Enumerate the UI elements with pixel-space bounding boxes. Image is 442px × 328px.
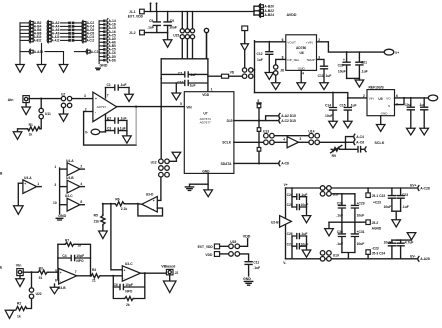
capacitor C30 (338, 222, 345, 252)
svg-text:GND: GND (58, 214, 66, 218)
ground (mid rail) (328, 222, 330, 228)
ground (U9 GND) (380, 116, 382, 125)
svg-text:21k: 21k (94, 220, 100, 224)
jumper link A-C6 SCLK (354, 140, 355, 145)
svg-text:.1uF: .1uF (350, 103, 357, 107)
svg-text:2: 2 (80, 164, 82, 168)
wire SCLK to links (320, 141, 354, 143)
ground (AIn shield) (25, 103, 27, 107)
resistor R11 (258, 121, 260, 128)
svg-text:+: + (60, 271, 62, 275)
svg-text:TEMP: TEMP (306, 58, 315, 62)
svg-text:VO: VO (386, 96, 391, 100)
svg-text:GND: GND (100, 64, 108, 68)
jumper link row 5 left bank (20, 34, 94, 39)
svg-text:C3: C3 (107, 127, 111, 131)
ground (C1) (128, 88, 130, 95)
resistor R3 (37, 270, 48, 274)
svg-text:4.7uF: 4.7uF (405, 240, 414, 244)
svg-text:6: 6 (55, 279, 57, 283)
jumper link A-C8 SDATA (279, 161, 280, 166)
resistor R4 (91, 274, 100, 278)
svg-text:5: 5 (55, 269, 57, 273)
capacitor C14 (330, 93, 337, 122)
svg-text:AIn: AIn (8, 98, 14, 102)
wire to REF VIN (348, 97, 367, 99)
capacitor C16 (346, 147, 365, 152)
jumper link row 4 left bank (20, 31, 94, 36)
svg-text:10: 10 (53, 201, 57, 205)
svg-text:J1-2: J1-2 (129, 31, 136, 35)
svg-text:1uF: 1uF (326, 74, 332, 78)
capacitor C31 (351, 222, 358, 252)
ground (R5) (102, 226, 104, 231)
ground (U12) (169, 159, 176, 162)
svg-text:U2-B: U2-B (271, 220, 279, 224)
svg-text:A-C6: A-C6 (356, 141, 364, 145)
ground (left bank bus 1) (16, 65, 25, 73)
svg-text:1uF: 1uF (120, 127, 126, 131)
svg-text:GND: GND (202, 169, 210, 173)
svg-text:3: 3 (299, 137, 301, 141)
svg-text:V-: V- (85, 131, 88, 135)
svg-text:C2: C2 (107, 116, 111, 120)
svg-text:10pF: 10pF (76, 254, 84, 258)
svg-text:VOUT: VOUT (287, 41, 296, 45)
svg-text:J2: J2 (175, 271, 179, 275)
svg-text:C5: C5 (149, 19, 153, 23)
wire VIn to R3 (23, 271, 37, 273)
ground (C12) (265, 73, 273, 80)
wire U7 GND pin (190, 173, 209, 186)
ground (C14) (329, 121, 338, 128)
wire arrow to jumper (244, 50, 246, 67)
svg-text:.1uF: .1uF (361, 70, 368, 74)
svg-text:+C23: +C23 (373, 201, 381, 205)
node test point TP2 (156, 4, 158, 12)
svg-text:A-C12: A-C12 (87, 39, 95, 43)
jumper link AVDD row 1 (254, 4, 274, 9)
svg-text:1: 1 (211, 88, 213, 92)
jumper U12 (159, 159, 164, 164)
svg-text:A-B20: A-B20 (264, 4, 274, 8)
ground (bus 3) (59, 65, 68, 73)
svg-text:J5-1 C22: J5-1 C22 (372, 194, 386, 198)
wire header bus (98, 21, 100, 64)
svg-text:C20: C20 (338, 63, 344, 67)
capacitor C26 (291, 236, 293, 259)
svg-text:C11: C11 (253, 260, 259, 264)
jumper link header row 2 (99, 22, 116, 27)
wire inverting input (84, 111, 93, 113)
svg-text:A-C28: A-C28 (420, 186, 430, 190)
svg-text:C15: C15 (340, 103, 346, 107)
svg-text:1k: 1k (17, 315, 21, 319)
ground (C20/C21) (355, 80, 364, 87)
svg-text:A-A28: A-A28 (420, 257, 430, 261)
svg-text:10uF: 10uF (384, 240, 392, 244)
op-amp U6 AD780 (286, 35, 317, 71)
jumper U14 (309, 140, 314, 145)
svg-text:V+: V+ (284, 183, 288, 187)
svg-text:VIN: VIN (186, 105, 192, 109)
svg-text:U11: U11 (45, 112, 51, 116)
capacitor C11 (240, 254, 253, 276)
jumper link row 2 left bank (20, 24, 94, 29)
svg-text:SDATA: SDATA (221, 162, 232, 166)
svg-text:10uF: 10uF (338, 70, 346, 74)
svg-text:C27: C27 (287, 242, 293, 246)
svg-text:U9: U9 (378, 97, 382, 101)
capacitor C9 (167, 12, 169, 33)
ground (R1) (18, 129, 28, 132)
ground (C2/C3) (126, 121, 128, 136)
jumper link header row 3 (99, 26, 116, 31)
capacitor C2 (106, 118, 127, 123)
wire SCLK net (234, 141, 264, 143)
ground (C24) (407, 128, 416, 135)
wire lower mid join (342, 253, 355, 259)
svg-text:R9: R9 (332, 154, 336, 158)
svg-text:SCLK: SCLK (222, 140, 232, 144)
svg-text:J8: J8 (280, 69, 284, 73)
wire left drop to decoupling (160, 59, 162, 107)
svg-text:C21: C21 (361, 60, 367, 64)
node test point TP3 (204, 28, 208, 32)
wire feedback loop (84, 112, 137, 146)
capacitor C29 (351, 194, 358, 222)
svg-text:VIN: VIN (369, 96, 374, 100)
capacitor C7 (161, 72, 208, 77)
capacitor C15 (344, 98, 351, 121)
ground (C15) (344, 121, 353, 128)
wire jumper to U3-D (157, 177, 161, 200)
jumper link row 7 (A-A26) (20, 49, 100, 54)
svg-text:5: 5 (180, 102, 182, 106)
jumper U11 (40, 99, 42, 109)
ground (U7 right) (207, 184, 209, 190)
capacitor C23 (397, 188, 404, 211)
svg-text:U6: U6 (300, 51, 304, 55)
resistor R10 (series top) (257, 103, 261, 104)
svg-text:10uF: 10uF (325, 114, 333, 118)
jumper link row 3 left bank (20, 27, 94, 32)
jumper U22 (31, 272, 33, 288)
wire D15 net (234, 120, 278, 122)
svg-text:U4-C: U4-C (65, 194, 73, 198)
wire bus 3 (63, 52, 65, 65)
capacitor C25 (421, 98, 428, 128)
ground (U3-B pin) (54, 284, 56, 287)
svg-text:6: 6 (396, 94, 398, 98)
svg-text:C4: C4 (62, 254, 66, 258)
op-amp U1 AD797 (93, 92, 117, 122)
jumper link A-C4 (346, 137, 354, 150)
op-amp U10 buffer (274, 141, 287, 143)
wire AVDD branch (253, 6, 255, 15)
svg-text:U3-D: U3-D (146, 192, 154, 196)
wire jumper to VOUT node (253, 69, 255, 71)
svg-text:VD: VD (230, 70, 235, 74)
svg-text:4: 4 (80, 182, 82, 186)
svg-text:2.1k: 2.1k (121, 207, 128, 211)
jumper link row 6 left bank (20, 38, 94, 43)
resistor R12 (258, 142, 260, 147)
svg-text:VDD: VDD (243, 235, 251, 239)
svg-text:GND: GND (381, 111, 389, 115)
svg-text:+: + (24, 182, 26, 186)
capacitor C3 (106, 128, 127, 133)
svg-text:7: 7 (75, 270, 77, 274)
ground (decoupling) (175, 83, 177, 93)
jumper link AVDD row 3 (254, 13, 274, 18)
svg-text:AD780: AD780 (296, 46, 306, 50)
svg-text:NPO: NPO (125, 289, 133, 293)
capacitor C12 (266, 42, 273, 73)
svg-text:+: + (343, 58, 345, 62)
resistor R7 (58, 243, 65, 245)
svg-text:U12: U12 (151, 160, 157, 164)
svg-text:+: + (153, 199, 155, 203)
svg-text:C12: C12 (257, 52, 263, 56)
jumper link header row 7 (99, 40, 116, 45)
svg-text:1uF: 1uF (190, 83, 196, 87)
ground (C25) (420, 128, 429, 135)
svg-text:1k: 1k (29, 132, 33, 136)
svg-text:.1uF: .1uF (336, 242, 343, 246)
svg-text:R1: R1 (29, 123, 33, 127)
svg-text:8: 8 (80, 200, 82, 204)
resistor R8 (113, 287, 124, 299)
svg-text:4: 4 (302, 71, 304, 75)
svg-text:A-D6: A-D6 (109, 58, 116, 62)
svg-text:C26: C26 (287, 232, 293, 236)
svg-text:J5-2: J5-2 (372, 221, 379, 225)
svg-text:+: + (124, 269, 126, 273)
capacitor C24 (407, 98, 414, 128)
wire SDATA net (234, 162, 278, 164)
resistor R1 (40, 119, 41, 129)
svg-text:D15: D15 (227, 119, 233, 123)
svg-text:+C31: +C31 (357, 230, 365, 234)
jumper link header row 10 (99, 51, 116, 56)
svg-text:C10: C10 (177, 81, 183, 85)
capacitor C21 (356, 52, 363, 78)
svg-text:10pF: 10pF (125, 283, 133, 287)
svg-text:3: 3 (84, 94, 86, 98)
svg-text:C23: C23 (402, 193, 408, 197)
arrow buffer symbol (241, 44, 249, 51)
jumper link header row 11 (99, 54, 116, 59)
ground (VIn shield) (19, 276, 21, 279)
node J5-2 AGND (366, 220, 370, 225)
svg-text:+: + (95, 97, 97, 101)
svg-text:U14: U14 (308, 130, 314, 134)
ground (VBiased) (169, 275, 171, 281)
svg-text:5: 5 (257, 99, 259, 103)
jumper link header row 4 (99, 29, 116, 34)
jumper U17 (320, 186, 325, 191)
svg-text:J1-1: J1-1 (129, 10, 136, 14)
svg-text:S: S (388, 104, 390, 108)
svg-text:-: - (24, 189, 25, 193)
node test point TP3 (204, 28, 208, 32)
svg-text:R2: R2 (17, 302, 21, 306)
wire mid rail (161, 58, 208, 60)
wire V+ rail (286, 187, 417, 189)
svg-text:10uF: 10uF (169, 25, 177, 29)
node J5-3 (366, 250, 370, 255)
svg-text:R7: R7 (65, 238, 69, 242)
svg-text:C7: C7 (178, 71, 182, 75)
svg-text:EV-: EV- (410, 254, 415, 258)
jumper link A-C2 D15 (279, 118, 280, 123)
capacitor C1 (106, 85, 130, 90)
wire VOUT line (255, 41, 286, 93)
jumper U2 (61, 96, 65, 100)
svg-text:-: - (153, 207, 154, 211)
wire U3-D feedback (138, 204, 163, 216)
wire U2 to opamp (72, 98, 93, 100)
svg-text:A-A12: A-A12 (52, 39, 60, 43)
resistor R5 (102, 204, 104, 215)
wire U1 output to U7 VIN (117, 106, 185, 108)
svg-text:.1uF: .1uF (120, 83, 127, 87)
wire bias line down (111, 204, 122, 270)
jumper link header row 5 (99, 33, 116, 38)
svg-text:OP_SEL: OP_SEL (287, 58, 299, 62)
svg-text:.1uF: .1uF (190, 73, 197, 77)
capacitor C5 (156, 12, 158, 33)
wire V- rail (286, 258, 417, 260)
ground (U2) (63, 108, 65, 114)
svg-text:REF193/S: REF193/S (369, 85, 385, 89)
svg-text:U3-A: U3-A (24, 176, 32, 180)
jumper link header row 9 (99, 47, 116, 52)
svg-text:A-C8: A-C8 (281, 162, 289, 166)
capacitor C4 (58, 255, 91, 260)
svg-text:1: 1 (37, 182, 39, 186)
svg-text:C24: C24 (287, 193, 293, 197)
jumper link AVDD row 2 (254, 9, 274, 14)
svg-text:U15: U15 (173, 34, 179, 38)
svg-text:GND: GND (243, 277, 251, 281)
svg-text:.1uF: .1uF (253, 266, 260, 270)
svg-text:.1u: .1u (419, 103, 424, 107)
capacitor C20 (343, 52, 350, 78)
svg-text:AGND: AGND (372, 227, 382, 231)
svg-text:U19: U19 (333, 253, 339, 257)
svg-text:10uF: 10uF (357, 213, 365, 217)
svg-text:10uF: 10uF (357, 242, 365, 246)
jumper U19 (320, 251, 325, 256)
svg-text:C6: C6 (114, 283, 118, 287)
op-amp U7 AD7674 (184, 92, 234, 174)
node test point TP1 (150, 4, 152, 12)
svg-text:.1uF: .1uF (120, 116, 127, 120)
svg-text:10uF: 10uF (384, 205, 392, 209)
ground (R2) (10, 309, 16, 311)
svg-text:R6: R6 (115, 198, 119, 202)
resistor R6 (114, 202, 125, 206)
svg-text:3: 3 (54, 183, 56, 187)
svg-text:NPO: NPO (76, 259, 84, 263)
wire D15 upper branch (266, 116, 278, 121)
svg-text:C13: C13 (318, 74, 324, 78)
svg-text:51: 51 (39, 276, 43, 280)
svg-text:A-B24: A-B24 (264, 13, 274, 17)
svg-text:EXT_VDD: EXT_VDD (128, 15, 144, 19)
svg-text:.1uF: .1uF (147, 25, 154, 29)
svg-text:A-B12: A-B12 (34, 39, 42, 43)
ground (bus 2) (37, 65, 46, 73)
svg-text:A-C4: A-C4 (356, 135, 364, 139)
svg-text:C14: C14 (325, 103, 331, 107)
svg-text:R5: R5 (94, 213, 98, 217)
svg-text:SCLK: SCLK (375, 141, 385, 145)
svg-text:1: 1 (54, 165, 56, 169)
jumper J8 (O/P_SEL) (276, 59, 286, 64)
wire top VDD rail (144, 11, 254, 13)
svg-text:VIn: VIn (16, 264, 22, 268)
node CNV connector (242, 26, 248, 31)
wire U3-C output (140, 272, 166, 274)
wire VOUT net (395, 97, 429, 99)
svg-text:U7: U7 (203, 112, 207, 116)
svg-text:7: 7 (107, 93, 109, 97)
capacitor C33 (397, 240, 404, 259)
svg-text:VDD: VDD (205, 253, 213, 257)
svg-text:2: 2 (85, 107, 87, 111)
jumper link header row 6 (99, 36, 116, 41)
op-amp U3-B (59, 268, 77, 284)
svg-text:+C29: +C29 (357, 202, 365, 206)
svg-text:VBiased: VBiased (161, 264, 175, 268)
wire bus 2 (41, 44, 43, 65)
wire bus left bank (19, 23, 21, 65)
jumper link row 1 left bank (20, 20, 94, 25)
wire mid column feed (331, 193, 355, 195)
svg-text:C25: C25 (287, 203, 293, 207)
svg-text:6: 6 (282, 38, 284, 42)
svg-text:R3: R3 (39, 266, 43, 270)
capacitor C6 (113, 276, 145, 290)
wire mid rail (329, 221, 366, 223)
svg-text:EV+: EV+ (410, 184, 416, 188)
capacitor C22 (388, 188, 395, 211)
svg-text:.1uF: .1uF (336, 213, 343, 217)
svg-text:U2: U2 (61, 93, 65, 97)
resistor R8 (VD) (208, 75, 222, 77)
svg-text:V-: V- (283, 261, 286, 265)
jumper link header row 8 (99, 43, 116, 48)
inductor filter U15 (173, 12, 194, 59)
svg-text:C1: C1 (107, 83, 111, 87)
svg-text:A-C2 D15: A-C2 D15 (281, 119, 296, 123)
wire cap bottom rail (144, 32, 167, 34)
wire AIn to opamp (29, 98, 61, 100)
svg-text:C28: C28 (337, 202, 343, 206)
svg-text:U22: U22 (36, 292, 42, 296)
svg-text:-: - (60, 279, 61, 283)
jumper link header row 1 (99, 19, 116, 24)
capacitor C32 (392, 239, 401, 241)
ground (C5/C9) (167, 33, 169, 40)
wire CNV drop (244, 31, 246, 44)
svg-text:+VIN: +VIN (306, 41, 313, 45)
node V+ output oval (384, 49, 394, 55)
capacitor C24b (291, 188, 293, 207)
